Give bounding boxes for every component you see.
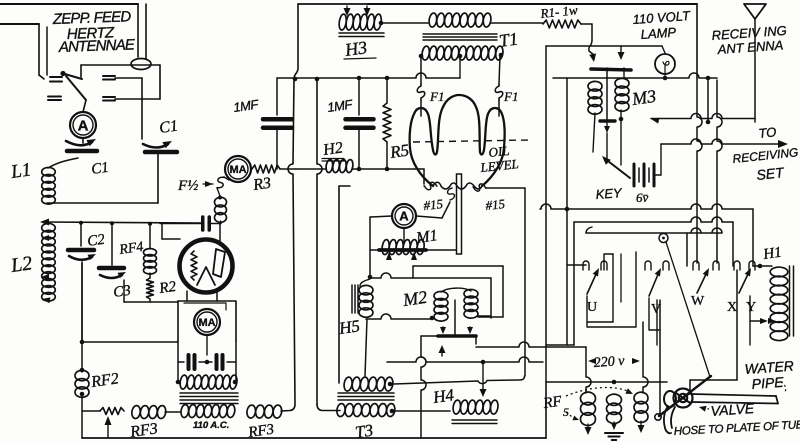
svg-text:M3: M3 <box>630 86 658 109</box>
svg-text:H5: H5 <box>337 316 361 338</box>
svg-text:C2: C2 <box>86 232 106 250</box>
svg-text:LAMP: LAMP <box>640 25 677 42</box>
svg-text:R2: R2 <box>157 279 177 297</box>
svg-text:H2: H2 <box>321 139 344 159</box>
svg-text:T1: T1 <box>498 29 520 51</box>
svg-text:110 A.C.: 110 A.C. <box>193 420 229 431</box>
svg-text:M1: M1 <box>414 227 438 247</box>
svg-text:6v̄: 6v̄ <box>636 190 649 205</box>
svg-text:F1: F1 <box>429 89 444 104</box>
svg-text:M2: M2 <box>401 287 429 310</box>
svg-text:TO: TO <box>758 124 777 141</box>
svg-text:X Y: X Y <box>727 300 759 315</box>
svg-text:VALVE: VALVE <box>710 400 755 419</box>
svg-text:#15: #15 <box>485 196 506 213</box>
svg-text:R3: R3 <box>251 175 272 194</box>
svg-text:A: A <box>399 209 409 224</box>
svg-text:SET: SET <box>756 164 786 183</box>
svg-text:KEY: KEY <box>595 185 623 202</box>
svg-text:H3: H3 <box>343 37 369 60</box>
svg-text:C3: C3 <box>112 283 132 301</box>
svg-text:L2: L2 <box>9 252 34 277</box>
svg-text:MA: MA <box>229 164 246 176</box>
svg-text:#15: #15 <box>423 196 444 213</box>
svg-text:R5: R5 <box>388 141 410 163</box>
svg-text:F1: F1 <box>503 89 518 104</box>
svg-text:T3: T3 <box>354 421 374 442</box>
svg-text:ANTENNAE: ANTENNAE <box>58 36 137 56</box>
svg-text:C1: C1 <box>158 118 179 137</box>
svg-text:F½: F½ <box>177 178 198 194</box>
svg-text:PIPE: PIPE <box>751 374 785 392</box>
svg-text:W: W <box>691 294 705 309</box>
svg-text:C1: C1 <box>90 160 110 178</box>
svg-text:RF: RF <box>541 393 563 412</box>
svg-text:H4: H4 <box>431 385 456 407</box>
svg-text:220 v: 220 v <box>593 354 625 371</box>
svg-text:H1: H1 <box>761 245 782 264</box>
svg-text:L1: L1 <box>9 159 33 183</box>
svg-text:MA: MA <box>198 317 215 329</box>
svg-text:U: U <box>587 300 597 315</box>
svg-text:A: A <box>78 117 89 134</box>
